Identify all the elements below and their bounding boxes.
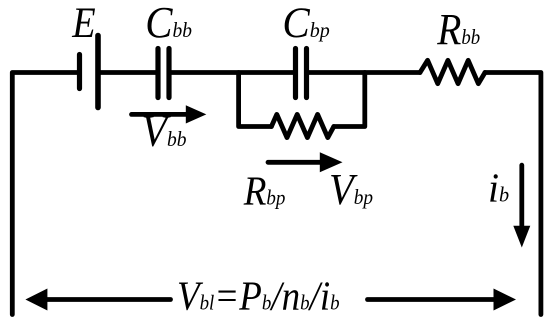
- label C_bp: [282, 0, 329, 47]
- wire C_bp to R_bb: [307, 70, 421, 75]
- battery E long plate (positive): [95, 36, 101, 108]
- wire parallel-loop right rise: [334, 73, 365, 127]
- arrow i_b line: [519, 165, 524, 227]
- capacitor C_bp right plate: [304, 49, 309, 98]
- arrowhead V_bp: [320, 152, 343, 172]
- svg-text:E: E: [71, 0, 95, 46]
- wire C_bb to C_bp: [169, 70, 293, 75]
- arrow V_bb line: [132, 112, 189, 117]
- capacitor C_bb left plate: [155, 49, 160, 98]
- label V_bb: [141, 107, 186, 157]
- resistor R_bb zigzag: [420, 60, 485, 83]
- label V_bp: [329, 165, 373, 214]
- label E: [71, 0, 95, 46]
- capacitor C_bp left plate: [293, 49, 298, 98]
- battery E short plate (negative): [77, 55, 82, 89]
- label i_b: [488, 165, 509, 211]
- label R_bb: [436, 6, 480, 54]
- arrowhead V_bl left: [25, 289, 47, 311]
- label R_bp: [243, 169, 286, 214]
- arrowhead V_bl right: [494, 289, 517, 311]
- resistor R_bp zigzag: [271, 114, 333, 137]
- label V_bl formula: [177, 274, 340, 319]
- wire parallel-loop left drop: [239, 73, 272, 127]
- arrow V_bl right line: [368, 297, 495, 302]
- arrowhead i_b: [513, 226, 530, 248]
- wire left vertical and top-left segment: [12, 73, 77, 315]
- arrow V_bl left line: [46, 297, 171, 302]
- wire R_bb to right corner and right vertical: [485, 73, 541, 315]
- capacitor C_bb right plate: [166, 49, 171, 98]
- wire battery to C_bb: [98, 70, 156, 75]
- arrow V_bp line: [268, 160, 323, 165]
- label C_bb: [145, 0, 192, 48]
- arrowhead V_bb: [186, 105, 207, 123]
